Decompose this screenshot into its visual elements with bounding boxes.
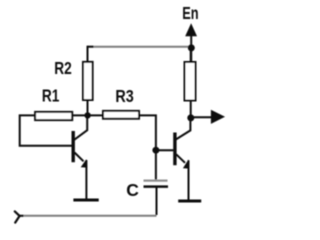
svg-text:R2: R2 [54,59,72,78]
svg-text:R3: R3 [115,87,133,107]
svg-text:En: En [182,4,198,23]
svg-text:R1: R1 [42,87,60,106]
svg-text:C: C [126,180,139,200]
